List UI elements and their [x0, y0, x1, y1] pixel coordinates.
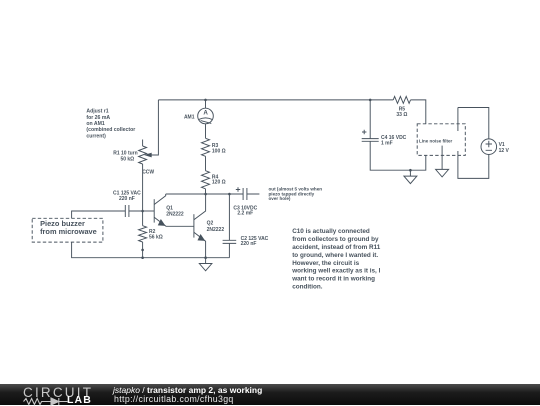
- svg-text:to ground, where I wanted it.: to ground, where I wanted it.: [292, 252, 378, 259]
- svg-text:120 Ω: 120 Ω: [212, 180, 226, 186]
- svg-text:accident, instead of from R11: accident, instead of from R11: [292, 244, 381, 251]
- svg-text:However, the circuit is: However, the circuit is: [292, 260, 359, 267]
- svg-text:12 V: 12 V: [499, 148, 510, 154]
- svg-text:1 mF: 1 mF: [381, 140, 393, 146]
- svg-text:220 nF: 220 nF: [119, 196, 135, 202]
- svg-text:want to record it in working: want to record it in working: [291, 276, 375, 283]
- svg-text:A: A: [203, 110, 208, 117]
- svg-text:for 26 mA: for 26 mA: [86, 115, 110, 121]
- svg-text:from collectors to ground by: from collectors to ground by: [292, 236, 379, 243]
- svg-text:Line noise filter: Line noise filter: [419, 139, 453, 144]
- svg-text:C10 is actually connected: C10 is actually connected: [292, 228, 370, 235]
- svg-text:R1 10 turn: R1 10 turn: [113, 150, 137, 156]
- svg-text:50 kΩ: 50 kΩ: [120, 156, 134, 162]
- svg-text:(combined collector: (combined collector: [86, 127, 135, 133]
- svg-text:condition.: condition.: [292, 284, 323, 291]
- svg-text:Adjust r1: Adjust r1: [86, 109, 108, 115]
- svg-text:working well exactly as it is,: working well exactly as it is, I: [291, 268, 380, 275]
- svg-text:Q2: Q2: [207, 221, 214, 227]
- svg-text:on AM1: on AM1: [86, 121, 105, 127]
- svg-text:2N2222: 2N2222: [166, 212, 184, 218]
- svg-text:100 Ω: 100 Ω: [212, 148, 226, 154]
- svg-text:220 nF: 220 nF: [241, 241, 257, 247]
- svg-text:over hole): over hole): [269, 196, 291, 201]
- svg-text:CCW: CCW: [142, 170, 154, 176]
- svg-text:2N2222: 2N2222: [207, 227, 225, 233]
- svg-text:AM1: AM1: [184, 115, 195, 121]
- svg-text:33 Ω: 33 Ω: [396, 112, 407, 118]
- svg-text:Q1: Q1: [166, 206, 173, 212]
- svg-text:from microwave: from microwave: [40, 227, 97, 236]
- svg-text:56 kΩ: 56 kΩ: [149, 234, 163, 240]
- svg-text:2.2 mF: 2.2 mF: [237, 211, 253, 217]
- svg-text:current): current): [86, 133, 106, 139]
